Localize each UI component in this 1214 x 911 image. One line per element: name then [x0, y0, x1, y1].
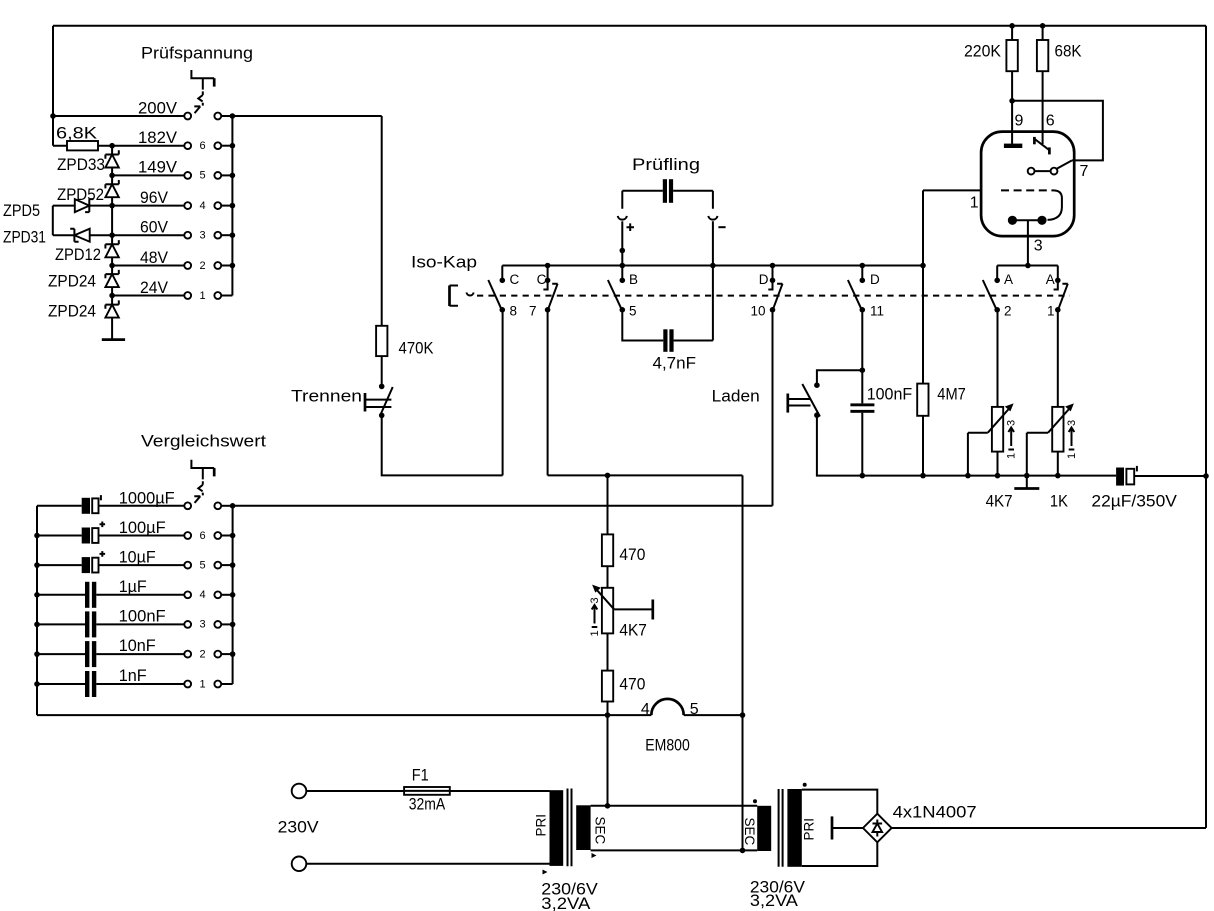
svg-text:22µF/350V: 22µF/350V — [1091, 493, 1177, 511]
potentiometer P 4K7 wiper arrow — [596, 589, 614, 609]
wire row 149V — [112, 174, 184, 176]
svg-text:1: 1 — [970, 195, 979, 212]
wire fuse to T1 primary — [450, 790, 550, 792]
svg-text:4,7nF: 4,7nF — [653, 355, 697, 373]
svg-text:C: C — [537, 272, 547, 287]
svg-text:182V: 182V — [138, 129, 177, 147]
switch K2-C lever pin7 — [548, 284, 558, 310]
rectifier bridge diode symbol — [876, 820, 878, 837]
node junction 220K — [1009, 98, 1015, 104]
switch K4-D top stub — [768, 266, 772, 290]
switch K1-C contacts — [500, 278, 506, 284]
resistor R 220K — [1006, 40, 1017, 71]
node junction socket plus — [620, 248, 626, 254]
switch K1-C lever pin8 — [488, 280, 501, 309]
wire pin3 down — [1027, 220, 1029, 265]
svg-text:D: D — [759, 272, 769, 287]
node junction Laden 100nF — [860, 367, 866, 373]
svg-text:A: A — [1046, 272, 1055, 287]
potentiometer P 4K7 wiper wire — [968, 433, 988, 476]
socket cup plus — [618, 216, 627, 220]
svg-text:ZPD31: ZPD31 — [3, 229, 46, 247]
svg-text:ZPD33: ZPD33 — [57, 156, 105, 174]
wire caps left bus — [36, 506, 38, 715]
transformer T1 core — [568, 789, 572, 867]
svg-text:470: 470 — [619, 676, 645, 694]
svg-text:60V: 60V — [140, 219, 168, 237]
switch K7-A contacts — [1055, 278, 1061, 284]
switch K3-B lever pin5 — [608, 280, 622, 309]
wire Vergleich row1 to K4-D — [233, 505, 773, 507]
svg-text:Iso-Kap: Iso-Kap — [411, 254, 477, 272]
potentiometer P 4K7 body — [992, 407, 1003, 452]
svg-text:Laden: Laden — [712, 388, 760, 406]
wire bus Iso-Kap net — [502, 265, 923, 267]
svg-text:6,8K: 6,8K — [56, 125, 97, 143]
wire bridge AC left to bar — [832, 827, 863, 829]
capacitor C 100µF electrolytic — [37, 522, 184, 544]
resistor R 68K — [1037, 40, 1048, 71]
svg-text:9: 9 — [1015, 113, 1024, 130]
svg-text:100nF: 100nF — [867, 386, 913, 404]
svg-text:1000µF: 1000µF — [119, 490, 175, 508]
svg-text:1: 1 — [200, 678, 206, 690]
svg-text:SEC: SEC — [742, 818, 757, 846]
svg-text:5: 5 — [200, 559, 206, 571]
diode zener ZPD24 lower — [105, 300, 118, 317]
switch S1 wiper arrow — [194, 106, 200, 113]
resistor R 68K leads — [1042, 26, 1044, 144]
svg-text:24V: 24V — [140, 279, 168, 297]
svg-text:A: A — [1004, 272, 1013, 287]
switch S2 contacts row7 pin1 — [184, 678, 232, 690]
terminal 230V bottom — [292, 857, 307, 872]
switch S2 contacts row6 pin2 — [184, 648, 232, 660]
capacitor Prüfling DUT plates — [663, 179, 667, 203]
diode zener ZPD31 horizontal — [70, 229, 90, 242]
diode zener ZPD33 — [105, 150, 118, 167]
relay contact pin7 link — [1035, 170, 1051, 172]
svg-text:10µF: 10µF — [119, 549, 156, 567]
svg-text:470: 470 — [619, 546, 645, 564]
switch K4-D lever pin10 — [773, 284, 783, 310]
resistor R 470 lower — [602, 671, 613, 702]
wire Prüfling right lead — [673, 191, 713, 209]
wire heater rail right — [684, 714, 743, 716]
node junctions bottom bus — [860, 473, 866, 479]
switch S1 wiper stem dashed — [198, 78, 203, 105]
switch S2 contacts row3 pin5 — [184, 559, 232, 571]
wire S2 bus vertical — [232, 506, 234, 684]
svg-text:Trennen: Trennen — [291, 388, 362, 406]
node junctions Iso-Kap bus — [545, 263, 551, 269]
wire row 24V — [112, 295, 184, 297]
capacitor C 1000µF electrolytic — [37, 495, 184, 514]
node junctions S2 bus — [230, 503, 236, 509]
diode zener ZPD52 — [105, 180, 118, 197]
switch S2 contacts row5 pin3 — [184, 619, 232, 631]
wire A switches top link — [997, 266, 1058, 281]
svg-text:100µF: 100µF — [119, 519, 166, 537]
potentiometer P 4K7 pin marks — [1006, 420, 1018, 459]
svg-text:5: 5 — [690, 701, 699, 718]
wire row 200V — [53, 115, 184, 117]
svg-text:Vergleichswert: Vergleichswert — [141, 433, 266, 451]
svg-text:8: 8 — [510, 304, 518, 319]
wire row 60V — [90, 234, 185, 236]
svg-text:4x1N4007: 4x1N4007 — [893, 804, 977, 822]
svg-text:3: 3 — [1066, 420, 1078, 426]
switch bank actuator bracket — [448, 286, 451, 307]
svg-text:470K: 470K — [399, 340, 434, 358]
svg-text:4M7: 4M7 — [937, 386, 966, 404]
node junctions zener chain — [109, 143, 115, 149]
resistor R 4M7 — [917, 384, 928, 416]
svg-text:48V: 48V — [140, 249, 168, 267]
node junctions S1 bus — [230, 113, 236, 119]
wire 4,7nF left lead — [622, 310, 663, 341]
svg-text:PRI: PRI — [802, 818, 817, 841]
wire socket minus down to 4,7nF — [712, 221, 714, 340]
svg-text:1K: 1K — [1050, 493, 1068, 511]
wire T2 primary bottom to bridge — [802, 842, 878, 866]
svg-text:3: 3 — [200, 619, 206, 631]
node junction heater right — [740, 712, 746, 718]
switch K2-C contacts — [545, 278, 551, 284]
wire left drop from top rail — [52, 26, 54, 146]
switch S1 contacts row6 pin2 — [184, 260, 232, 272]
svg-text:1: 1 — [1066, 453, 1078, 459]
svg-text:220K: 220K — [964, 43, 1001, 61]
capacitor C 100nF leads — [861, 370, 863, 475]
potentiometer P 1K leads — [1057, 310, 1059, 476]
svg-text:2: 2 — [1004, 304, 1012, 319]
svg-text:68K: 68K — [1055, 43, 1082, 61]
rectifier bridge 4x1N4007 diamond — [863, 814, 892, 843]
potentiometer P 1K wiper wire — [1027, 433, 1048, 476]
node junction heater drop to sec — [740, 848, 746, 854]
svg-text:1: 1 — [589, 630, 601, 636]
switch S1 rotary Prüfspannung bracket — [191, 70, 214, 78]
resistor R 470 upper — [602, 534, 613, 566]
potentiometer P 4K7 wiper wire — [614, 608, 653, 610]
switch S2 wiper stem dashed — [198, 468, 203, 495]
wire heater right down to sec — [742, 715, 744, 850]
relay contact plate pin9 — [1004, 144, 1022, 148]
transformer T2 primary winding — [787, 789, 801, 867]
node junction heater left — [605, 712, 611, 718]
svg-text:4: 4 — [200, 200, 206, 212]
svg-text:1µF: 1µF — [119, 578, 147, 596]
relay lever pin7 — [1057, 160, 1072, 168]
wire heater link — [1012, 219, 1042, 221]
relay EM800 socket outline — [981, 132, 1074, 237]
switch S2 contacts row2 pin6 — [184, 530, 232, 542]
wire Laden top to node — [817, 370, 862, 385]
svg-text:1: 1 — [1006, 453, 1018, 459]
svg-text:149V: 149V — [138, 159, 177, 177]
wire pin1 dashed inside — [1001, 189, 1053, 191]
resistor R 220K leads — [1011, 26, 1013, 144]
resistor R 470K — [376, 326, 387, 356]
node junction right rail — [1203, 473, 1209, 479]
diode zener ZPD24 upper — [105, 270, 118, 287]
svg-text:SEC: SEC — [593, 817, 608, 845]
label plus — [627, 223, 635, 231]
ground bus — [1026, 476, 1028, 489]
switch Laden contacts — [814, 382, 820, 388]
resistor R 470 lower leads — [607, 633, 609, 805]
node junctions caps left bus — [34, 533, 40, 539]
svg-text:7: 7 — [1080, 163, 1089, 180]
potentiometer P 1K wiper arrow — [1048, 408, 1070, 433]
wire row 96V — [89, 205, 184, 207]
label minus — [718, 226, 725, 228]
svg-text:EM800: EM800 — [645, 737, 690, 755]
wire pin1 net vertical — [922, 190, 924, 475]
svg-text:7: 7 — [529, 304, 537, 319]
switch S1 contacts row2 pin6 — [184, 140, 232, 152]
switch K2-C top stub and hook — [543, 266, 547, 290]
switch Laden lever — [802, 384, 820, 417]
node junctions top rail — [1009, 23, 1015, 29]
wire mains top to fuse — [306, 790, 404, 792]
svg-text:6: 6 — [200, 530, 206, 542]
wire row 48V — [112, 265, 184, 267]
svg-text:11: 11 — [870, 304, 884, 319]
wire mechanical coupling dashed — [477, 295, 1070, 297]
svg-text:3,2VA: 3,2VA — [750, 892, 798, 910]
fuse F1 — [404, 787, 450, 795]
svg-text:ZPD24: ZPD24 — [48, 303, 96, 321]
capacitor C 22uF plates — [1116, 468, 1124, 486]
diode zener ZPD5 horizontal — [75, 199, 94, 212]
svg-text:2: 2 — [200, 648, 206, 660]
svg-text:B: B — [629, 272, 638, 287]
svg-text:ZPD12: ZPD12 — [55, 246, 101, 264]
switch S1 contacts row4 pin4 — [184, 200, 232, 212]
wire T1 sec top to T2 — [591, 805, 758, 807]
wire S1 output bus vertical — [231, 116, 233, 296]
potentiometer P 4K7 body — [602, 588, 613, 634]
switch K5-D top stub — [861, 266, 863, 281]
switch Trennen lever — [380, 387, 393, 415]
wire socket plus down to B — [621, 221, 623, 280]
potentiometer P 1K pin marks — [1066, 420, 1078, 459]
capacitor C 22uF polarity tick — [1136, 466, 1138, 472]
wire Trennen bottom to C8 net — [382, 310, 503, 476]
svg-text:4K7: 4K7 — [986, 493, 1013, 511]
svg-text:Prüfling: Prüfling — [632, 156, 700, 174]
relay blade pin6 — [1033, 137, 1036, 144]
svg-text:200V: 200V — [138, 100, 177, 118]
transformer T2 phase marks — [803, 783, 807, 787]
switch S1 contacts row3 pin5 — [184, 170, 232, 182]
svg-text:1: 1 — [1047, 304, 1055, 319]
wire T1 sec bottom to T2 — [591, 849, 758, 851]
svg-text:10: 10 — [751, 304, 766, 319]
capacitor C 4,7nF plates — [663, 329, 667, 352]
potentiometer P 1K body — [1052, 407, 1063, 452]
wire T2 primary top to bridge — [802, 790, 878, 814]
switch S2 contacts row4 pin4 — [184, 589, 232, 601]
wire 220K node to relay pin7 — [1012, 101, 1103, 161]
switch S1 contacts row5 pin3 — [184, 230, 232, 242]
svg-text:3: 3 — [589, 597, 601, 603]
node junction chain top — [605, 473, 611, 479]
svg-text:230V: 230V — [278, 819, 319, 837]
wire mains bottom to T1 — [306, 864, 549, 865]
svg-text:3: 3 — [200, 230, 206, 242]
svg-text:ZPD5: ZPD5 — [3, 202, 40, 220]
svg-text:D: D — [870, 272, 880, 287]
wire pin1 into socket — [923, 189, 981, 191]
svg-text:5: 5 — [629, 304, 637, 319]
switch K7-A hook — [1054, 280, 1058, 289]
svg-text:1nF: 1nF — [119, 667, 147, 685]
svg-text:6: 6 — [200, 140, 206, 152]
svg-text:5: 5 — [200, 170, 206, 182]
wire bridge DC out to right rail — [892, 827, 1206, 829]
wire K2 bottom to chain net — [548, 310, 743, 715]
wire Laden bottom to bus — [817, 415, 1116, 475]
switch K7-A lever pin1 — [1058, 284, 1068, 310]
relay contact pin7 circles — [1028, 168, 1035, 175]
wire heater rail left — [37, 714, 651, 716]
svg-text:6: 6 — [1046, 113, 1055, 130]
switch K5-D lever pin11 — [848, 280, 862, 309]
svg-text:10nF: 10nF — [119, 637, 156, 655]
wire pin1 curve to heater — [1048, 190, 1062, 220]
wire 200V row to 470K — [232, 116, 381, 326]
switch S2 wiper arrow — [194, 496, 200, 503]
diode zener ZPD12 — [105, 240, 118, 257]
wire zener chain vertical — [111, 146, 113, 340]
switch K6-A lever pin2 — [983, 280, 997, 309]
transformer T1 phase marks — [543, 870, 548, 875]
tube EM800 heater bump — [651, 699, 683, 715]
potentiometer P 4K7 wiper arrow — [988, 408, 1010, 433]
capacitor C 10µF electrolytic — [37, 551, 184, 573]
svg-text:4K7: 4K7 — [619, 622, 647, 640]
switch K4-D contacts — [770, 278, 776, 284]
svg-text:32mA: 32mA — [409, 796, 446, 814]
wire right rail vertical — [1205, 26, 1207, 828]
potentiometer P 4K7 pin marks — [589, 597, 601, 636]
switch K1-C top stub — [501, 266, 503, 281]
transformer T1 primary winding — [550, 790, 564, 866]
resistor R 470 upper leads — [607, 475, 609, 587]
switch S1 contacts row7 pin1 — [184, 290, 232, 302]
switch S2 rotary Vergleichswert bracket — [191, 460, 214, 468]
capacitor C 100nF plates — [850, 403, 874, 406]
relay heater pins — [1008, 216, 1017, 225]
svg-text:4: 4 — [641, 701, 650, 718]
svg-text:ZPD24: ZPD24 — [48, 273, 96, 291]
capacitor C 1nF film — [37, 671, 184, 697]
wire K5 bottom to Laden node — [861, 310, 863, 370]
capacitor C 10nF film — [37, 641, 184, 667]
switch S1 contacts row1 200V — [184, 113, 232, 120]
svg-text:100nF: 100nF — [119, 608, 166, 626]
svg-text:PRI: PRI — [534, 814, 549, 837]
switch bank actuator cup — [467, 293, 474, 296]
node junction top-left — [50, 113, 56, 119]
capacitor C 100nF film — [37, 611, 184, 637]
switch Trennen contacts — [379, 384, 385, 390]
svg-text:3: 3 — [1006, 420, 1018, 426]
potentiometer P 4K7 wiper bar — [651, 600, 654, 620]
svg-text:1: 1 — [200, 290, 206, 302]
switch Laden actuator — [786, 394, 789, 413]
svg-text:3: 3 — [1034, 238, 1043, 255]
resistor R 6,8K leads — [53, 145, 112, 147]
wire Prüfling left lead — [622, 191, 663, 209]
switch K3-B contacts — [620, 278, 626, 284]
node junction 470 chain to sec — [605, 803, 611, 809]
switch K5-D contacts — [860, 278, 866, 284]
svg-text:C: C — [510, 272, 520, 287]
svg-text:Prüfspannung: Prüfspannung — [141, 45, 253, 63]
wire left bridge 96V-60V — [53, 206, 75, 236]
wire top rail 200V net — [53, 25, 1206, 27]
terminal bar bridge — [831, 816, 834, 839]
socket cup minus — [708, 216, 717, 220]
svg-text:4: 4 — [200, 589, 206, 601]
transformer T2 secondary winding — [757, 806, 771, 851]
wire row 182V — [112, 145, 184, 147]
transformer T1 secondary winding — [576, 805, 590, 850]
svg-text:3,2VA: 3,2VA — [541, 895, 590, 911]
switch S2 contacts row1 — [184, 502, 232, 509]
wire 22uF to right rail — [1134, 475, 1206, 477]
wire 4,7nF right lead — [674, 340, 713, 342]
terminal 230V top — [292, 784, 307, 799]
capacitor C 1µF film — [37, 582, 184, 608]
wire K4 bottom to Vergleich row1 — [772, 310, 774, 506]
svg-text:F1: F1 — [412, 767, 429, 785]
resistor R 6,8K — [67, 141, 98, 150]
ground zener chain — [102, 338, 125, 341]
svg-text:96V: 96V — [140, 189, 168, 207]
wire 470K to Trennen — [381, 356, 383, 386]
potentiometer P 4K7 leads — [997, 310, 999, 476]
switch K6-A contacts — [994, 278, 1000, 284]
svg-text:2: 2 — [200, 260, 206, 272]
transformer T2 core — [779, 789, 783, 867]
switch Trennen actuator — [364, 393, 367, 412]
